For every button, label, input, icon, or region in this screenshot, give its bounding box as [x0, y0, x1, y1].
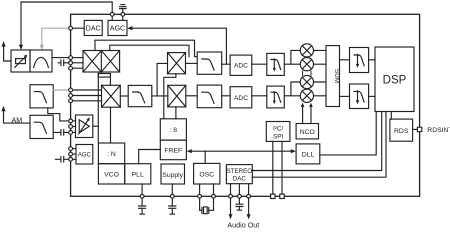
wire FM mixer Q out (top route)	[110, 45, 189, 57]
AM tracking filter A (external)	[30, 85, 53, 108]
decimation filter R1	[350, 48, 369, 73]
external cap Supply	[169, 198, 176, 214]
decimation filter R2	[350, 84, 369, 109]
svg-text:NCO: NCO	[300, 129, 315, 136]
wire decimator R1 to DSP	[369, 59, 375, 61]
DSP	[375, 47, 414, 112]
FM band-pass filter (external)	[30, 50, 52, 72]
svg-text:OSC: OSC	[199, 172, 214, 179]
AM IF filter	[128, 85, 152, 106]
svg-text:Audio Out: Audio Out	[227, 220, 259, 229]
wire SUM to decimator R2	[340, 95, 350, 97]
wire AM filter to ADC	[222, 95, 230, 97]
wire STEREO DAC to DSP (bottom)	[252, 112, 386, 178]
wire SUM to decimator R1	[340, 59, 350, 61]
pin AMI1	[69, 88, 102, 92]
external cap on AGC pin2	[120, 5, 127, 13]
pin ROUT	[247, 194, 251, 198]
Supply	[161, 164, 185, 184]
wire AM IF filter to 2nd mixers (tee)	[152, 63, 168, 96]
pin AGC2	[69, 152, 76, 156]
chip boundary	[71, 14, 420, 196]
wire VCO LO riser to FM mixer	[97, 72, 99, 143]
svg-text:RDS: RDS	[394, 128, 409, 135]
AGC FM	[108, 20, 127, 35]
pin VGA3	[69, 131, 76, 135]
svg-text:SUM: SUM	[333, 69, 340, 83]
STEREO DAC	[226, 165, 252, 184]
multiplier M1	[300, 44, 313, 57]
external cap audio	[236, 198, 243, 210]
pin FM AGC2	[121, 12, 125, 20]
DLL	[296, 144, 320, 164]
pin VGA2	[69, 125, 76, 129]
wire ADC to decimator (AM)	[252, 95, 267, 97]
svg-text:Supply: Supply	[162, 172, 183, 179]
FM antenna	[2, 41, 12, 61]
wires multipliers to SUM	[314, 50, 327, 95]
LO from div8 to AM 2nd mixer	[175, 107, 177, 119]
VCO	[98, 164, 124, 184]
AM AGC	[76, 145, 93, 165]
pin LOUT	[229, 194, 233, 198]
pin AMI3	[69, 99, 102, 103]
AM mixer	[102, 85, 121, 107]
pin GND audio	[238, 194, 242, 198]
PLL	[125, 164, 151, 184]
svg-text:DSP: DSP	[383, 75, 407, 87]
external cap PLL	[139, 198, 146, 214]
external cap on FM pin2	[58, 60, 68, 66]
wire RDS to pin	[413, 128, 418, 130]
decimation filter FM	[267, 53, 285, 75]
wire filter A bottom to VGA pin1	[48, 108, 69, 121]
external series cap filter B to pin	[53, 130, 68, 136]
svg-text:ADC: ADC	[234, 63, 248, 70]
multiplier bracket FM pair	[291, 50, 300, 64]
AM antenna	[1, 106, 30, 125]
NCO	[296, 124, 318, 139]
pin SCLK	[271, 194, 275, 198]
wires STEREO DAC to audio pins	[231, 184, 249, 195]
ADC FM	[230, 55, 252, 75]
AM channel filter	[197, 85, 222, 108]
pin FM AGC1	[110, 12, 114, 20]
external cap on AGC pin3	[55, 157, 68, 163]
ADC AM	[230, 87, 252, 108]
svg-text:AGC: AGC	[110, 26, 125, 33]
FM attenuator (external)	[11, 50, 30, 72]
pin PLL bypass	[140, 194, 144, 198]
pin FMI3	[69, 66, 83, 70]
audio left arrow	[229, 198, 233, 219]
LO from div8 to FM 2nd mixer	[164, 74, 176, 119]
wire DAC to external BPF (gray)	[40, 28, 69, 50]
wire decimator FM to multipliers	[284, 63, 291, 65]
svg-text:STEREO: STEREO	[227, 168, 253, 175]
pin XTAL1	[198, 194, 202, 198]
multiplier M2	[300, 58, 313, 71]
svg-text:DAC: DAC	[233, 175, 247, 182]
pin AMI2	[69, 94, 102, 98]
svg-text:: 8: : 8	[170, 127, 178, 134]
wire Supply to pin	[171, 184, 173, 194]
divider :N	[98, 143, 124, 164]
external crystal	[200, 198, 214, 214]
wire AGC feedback from ADC input tap	[127, 26, 226, 64]
svg-text:ADC: ADC	[234, 95, 248, 102]
I2C/SPI interface	[266, 122, 290, 142]
svg-text:FREF: FREF	[164, 148, 182, 155]
wire DAC to pin	[72, 27, 84, 29]
wire STEREO DAC to DSP (top)	[252, 112, 381, 171]
multiplier bracket AM pair	[291, 82, 300, 96]
svg-text:PLL: PLL	[132, 172, 144, 179]
NCO carrier ticks between pairs	[303, 71, 311, 75]
svg-text:AGC: AGC	[78, 153, 92, 159]
pin FMI1	[69, 56, 83, 60]
AM 2nd mixer	[168, 85, 186, 107]
svg-text:AM: AM	[12, 116, 23, 125]
I2C bus line 2	[281, 141, 283, 194]
AM VGA amplifier	[76, 115, 93, 138]
wire DSP to RDS	[390, 112, 392, 120]
wire ADC to decimator (FM)	[252, 63, 267, 65]
pin VGA1	[69, 119, 76, 123]
wire AM mixer LO riser	[110, 107, 112, 143]
wire BPF to FMI pin	[52, 57, 69, 59]
multiplier M3	[300, 75, 313, 88]
wire OSC to crystal pins	[200, 184, 214, 194]
wire decimator R2 to DSP	[369, 95, 375, 97]
multiplier M4	[300, 89, 313, 102]
wire filter A to AM mixer pin (gray)	[53, 89, 69, 91]
svg-text:DLL: DLL	[302, 151, 315, 158]
pin AGC3	[69, 157, 76, 161]
pin Supply bypass	[170, 194, 174, 198]
reference clock line OSC to FREF and DLL	[187, 149, 296, 163]
AM low-pass filter B (external)	[30, 115, 53, 138]
LO step FM mixer to AM mixer	[98, 72, 110, 85]
wire FM 2nd mixer to channel filter	[186, 62, 198, 64]
pin XTAL2	[212, 194, 216, 198]
wire AM mixer to AM IF filter	[120, 95, 128, 97]
svg-text:VCO: VCO	[104, 172, 119, 179]
wire PLL to bypass pin	[141, 184, 143, 194]
pin SDIO	[280, 194, 284, 198]
pin AGC1	[69, 147, 76, 151]
decimation filter AM	[267, 86, 285, 108]
wire DLL to DSP	[320, 112, 376, 155]
DAC U-top	[84, 20, 102, 35]
FM quadrature mixer	[83, 51, 120, 73]
svg-text:SPI: SPI	[273, 134, 284, 141]
SUM	[326, 46, 340, 107]
FM 2nd mixer	[168, 53, 186, 74]
RDS	[390, 119, 413, 141]
svg-text:I²C/: I²C/	[273, 126, 284, 133]
OSC	[194, 163, 220, 184]
FM channel filter	[197, 52, 222, 74]
pin RDSINT	[417, 127, 421, 131]
audio right arrow	[247, 198, 251, 219]
wire VGA out to LO riser	[93, 125, 99, 127]
divider div8	[160, 119, 186, 140]
svg-text:DAC: DAC	[86, 26, 101, 33]
wire FREF to PLL	[139, 150, 161, 164]
FREF	[160, 140, 186, 160]
NCO cos arrow	[309, 103, 313, 124]
wire AM 2nd mixer to channel filter	[186, 95, 197, 97]
I2C bus line 1	[272, 141, 274, 194]
wire FM AGC pin to external attenuator	[21, 2, 112, 46]
pin DAC out	[69, 26, 73, 30]
svg-text:RDSINT: RDSINT	[427, 127, 450, 134]
wire FM mixer I out (top route)	[95, 40, 197, 57]
wire FM filter to ADC	[222, 63, 230, 65]
NCO sin arrow	[301, 103, 305, 124]
pin FMI2	[69, 61, 83, 65]
svg-text:: N: : N	[107, 151, 116, 158]
wire decimator AM to multipliers	[284, 95, 291, 97]
